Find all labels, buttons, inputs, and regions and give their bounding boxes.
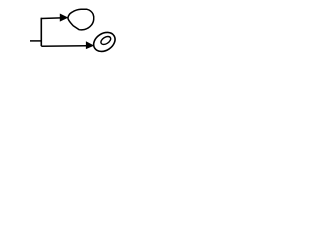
node B: inner ellipse [100, 35, 113, 46]
wire: top branch [41, 17, 60, 20]
arrowhead to node A [60, 14, 68, 21]
wire: bottom branch [41, 45, 86, 47]
arrowhead to node B [86, 42, 93, 49]
wire: input stub [30, 40, 41, 42]
node A: sketched circle [68, 9, 94, 30]
node B: outer sketched ellipse [90, 29, 119, 56]
wire: vertical branch [40, 18, 42, 46]
